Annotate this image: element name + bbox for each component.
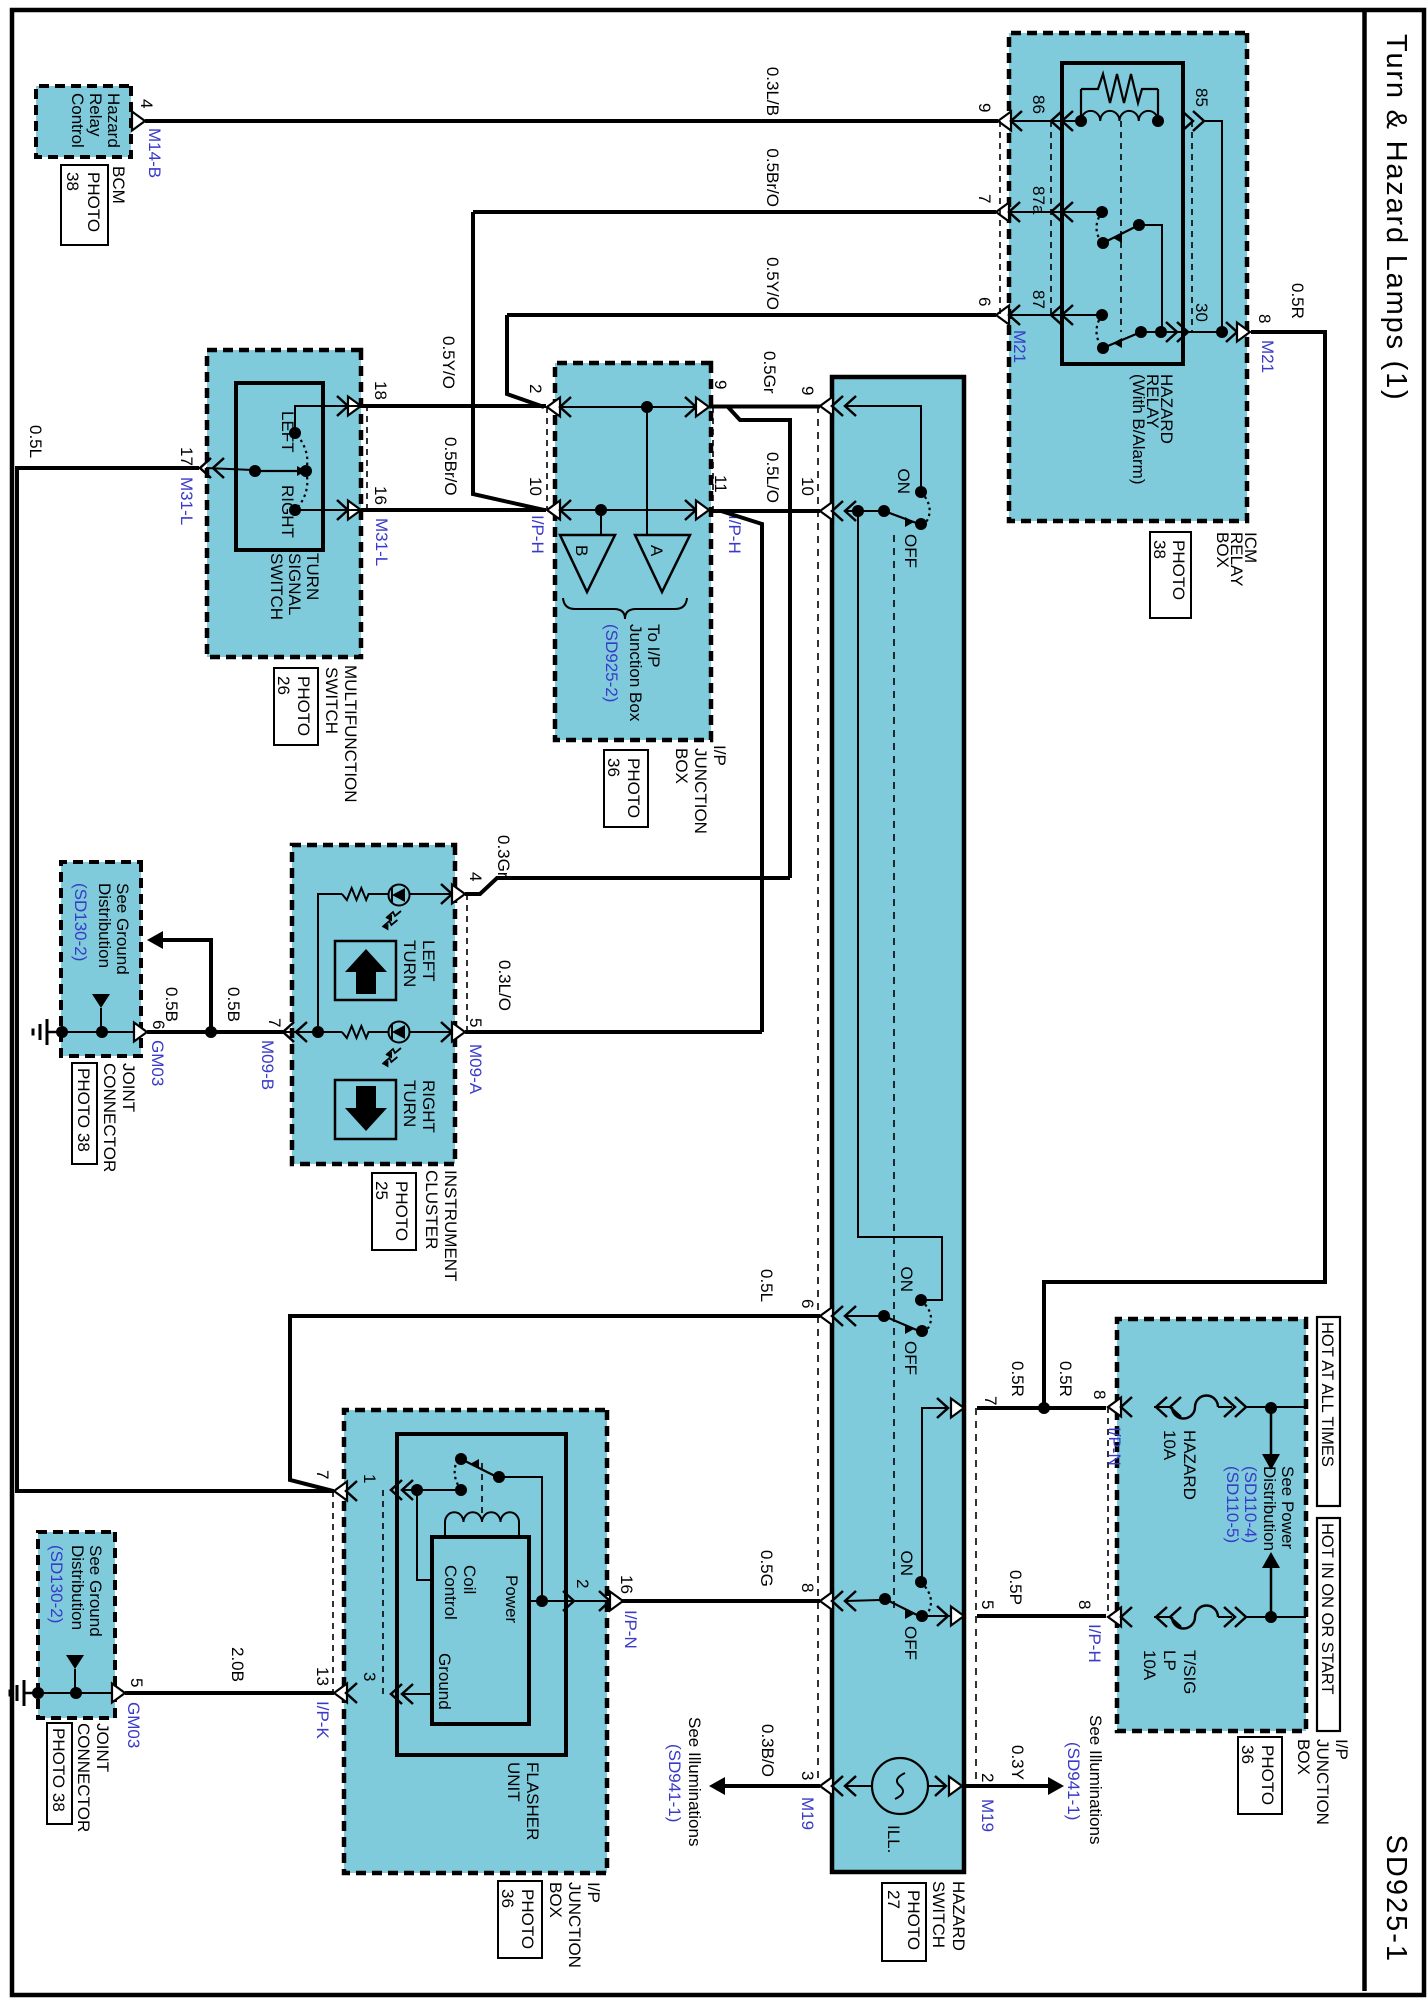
svg-text:38: 38 — [63, 172, 82, 191]
multifunction photo box — [274, 668, 318, 745]
pin 87a wire — [1009, 211, 1102, 213]
svg-text:CONNECTOR: CONNECTOR — [100, 1063, 119, 1172]
pole1 pivot dot — [878, 505, 890, 517]
svg-text:JUNCTION: JUNCTION — [565, 1882, 584, 1968]
jb pin 10 connector — [547, 501, 560, 520]
relay pin 6 connector — [996, 306, 1009, 325]
svg-text:10A: 10A — [1140, 1650, 1159, 1681]
svg-text:BOX: BOX — [546, 1882, 565, 1918]
wire 0.5B — [147, 1030, 211, 1034]
svg-text:M31-L: M31-L — [177, 477, 196, 525]
flasher pin 3 connector — [402, 1684, 413, 1704]
svg-text:LP: LP — [1160, 1650, 1179, 1671]
wire 0.5Y/O jog — [507, 315, 544, 407]
svg-text:Control: Control — [441, 1565, 460, 1620]
svg-text:2: 2 — [978, 1773, 997, 1782]
ILL lamp wire upper — [928, 1785, 946, 1787]
power wire — [529, 1600, 608, 1602]
svg-text:7: 7 — [265, 1018, 284, 1027]
see power arrow 2 — [1270, 1568, 1273, 1617]
svg-text:5: 5 — [978, 1600, 997, 1609]
svg-text:I/P-H: I/P-H — [528, 515, 547, 554]
wire 0.3B/O — [725, 1784, 820, 1788]
turn signal switch rect — [236, 383, 323, 550]
flasher pin 13 connector — [334, 1684, 347, 1703]
pole1 common dot — [852, 505, 864, 517]
see power arrow — [1270, 1408, 1273, 1455]
svg-text:Distribution: Distribution — [1260, 1466, 1279, 1551]
svg-text:85: 85 — [1192, 88, 1211, 107]
svg-text:8: 8 — [1075, 1600, 1094, 1609]
svg-text:BOX: BOX — [1294, 1739, 1313, 1775]
flasher unit rect — [397, 1434, 566, 1755]
right turn icon — [335, 1080, 396, 1139]
svg-text:0.5B: 0.5B — [162, 987, 181, 1022]
svg-text:25: 25 — [372, 1181, 391, 1200]
curly brace — [563, 598, 687, 619]
jb dash link left — [546, 407, 548, 510]
title separator line — [1362, 8, 1367, 1991]
fuse hazard 10A — [1172, 1396, 1218, 1419]
pin 86 chevrons — [1062, 111, 1073, 131]
svg-text:OFF: OFF — [901, 1626, 920, 1660]
svg-text:(SD130-2): (SD130-2) — [71, 883, 90, 961]
arm tip dot — [300, 465, 312, 477]
contact 87 dotted arc — [1097, 315, 1103, 348]
svg-text:7: 7 — [313, 1470, 332, 1479]
svg-text:3: 3 — [798, 1771, 817, 1780]
fuse tsig connector — [1108, 1608, 1121, 1627]
wire 0.5P — [977, 1614, 1106, 1618]
svg-text:ON: ON — [897, 1551, 916, 1577]
svg-text:TURN: TURN — [400, 1080, 419, 1127]
svg-text:PHOTO: PHOTO — [1258, 1745, 1277, 1805]
svg-text:0.5R: 0.5R — [1008, 1361, 1027, 1397]
svg-text:JOINT: JOINT — [119, 1063, 138, 1112]
svg-text:8: 8 — [1090, 1390, 1109, 1399]
svg-text:M09-B: M09-B — [258, 1040, 277, 1090]
svg-text:PHOTO: PHOTO — [904, 1890, 923, 1950]
ground arrow lower — [66, 1655, 84, 1669]
hz pole2 common wire — [845, 1315, 880, 1317]
svg-text:Control: Control — [68, 93, 87, 148]
svg-text:Distribution: Distribution — [95, 883, 114, 968]
wire 0.3L/B — [145, 119, 998, 123]
pin 18 connector — [337, 396, 348, 416]
svg-text:I/P: I/P — [710, 745, 729, 766]
hazard switch box — [832, 377, 964, 1872]
svg-text:ILL.: ILL. — [884, 1825, 903, 1853]
wire 0.3Y — [962, 1784, 1048, 1788]
arm 1 link — [1139, 225, 1162, 332]
wire 0.5Y/O relay segment — [507, 313, 996, 317]
svg-text:PHOTO: PHOTO — [518, 1889, 537, 1949]
flasher coil — [445, 1512, 519, 1522]
jb node B — [595, 504, 607, 516]
svg-text:LEFT: LEFT — [419, 940, 438, 982]
contact 87a dot — [1096, 206, 1108, 218]
pin 85 chevrons — [1182, 111, 1193, 131]
svg-text:RIGHT: RIGHT — [419, 1080, 438, 1133]
svg-text:0.5L: 0.5L — [26, 425, 45, 458]
wire 0.5L — [17, 468, 334, 1491]
svg-text:JUNCTION: JUNCTION — [691, 748, 710, 834]
svg-text:See Illuminations: See Illuminations — [1086, 1715, 1105, 1844]
hazard dash link right — [975, 1408, 977, 1786]
svg-text:I/P-H: I/P-H — [1085, 1624, 1104, 1663]
contact 87a pivot dot — [1097, 237, 1109, 249]
coil control wire — [417, 1492, 432, 1580]
svg-text:0.3Gr: 0.3Gr — [494, 835, 513, 878]
flasher inner rect — [432, 1537, 529, 1724]
svg-text:2: 2 — [573, 1579, 592, 1588]
junction cluster — [312, 1026, 324, 1038]
jb dash link right — [712, 407, 714, 510]
jb photo box — [604, 750, 648, 827]
svg-text:M19: M19 — [978, 1799, 997, 1832]
svg-text:Power: Power — [502, 1575, 521, 1624]
junction 85-30 — [1216, 326, 1228, 338]
wire 0.5L/O — [709, 509, 820, 513]
LED right turn — [389, 1022, 410, 1043]
triangle A — [635, 535, 690, 592]
fuse1 wire top — [1246, 1406, 1306, 1408]
flasher arm — [461, 1459, 497, 1477]
jb pin 11 connector — [685, 500, 696, 520]
jb node A — [641, 401, 653, 413]
svg-text:87a: 87a — [1029, 186, 1048, 215]
common wire — [206, 468, 253, 470]
fuse2 wire top — [1246, 1616, 1306, 1618]
fuse hazard chevrons — [1224, 1397, 1235, 1417]
svg-text:2.0B: 2.0B — [228, 1647, 247, 1682]
svg-text:I/P: I/P — [1332, 1739, 1351, 1760]
svg-text:CLUSTER: CLUSTER — [422, 1170, 441, 1249]
svg-text:8: 8 — [1255, 314, 1274, 323]
wire 0.3Gr to cluster — [465, 878, 790, 894]
hazard linkage dashed — [893, 535, 895, 1608]
svg-text:0.5G: 0.5G — [757, 1550, 776, 1587]
flasher linkage dashed — [481, 1463, 483, 1516]
svg-text:7: 7 — [975, 194, 994, 203]
svg-text:A: A — [647, 545, 666, 557]
hz pole1 on wire — [845, 406, 921, 488]
svg-text:HOT IN ON OR START: HOT IN ON OR START — [1318, 1523, 1336, 1694]
svg-text:5: 5 — [466, 1018, 485, 1027]
svg-text:SWITCH: SWITCH — [929, 1881, 948, 1948]
svg-text:6: 6 — [975, 297, 994, 306]
relay linkage dashed — [1120, 121, 1122, 332]
svg-text:UNIT: UNIT — [504, 1762, 523, 1802]
wire 0.3L/O to cluster — [465, 1030, 762, 1034]
pin 87a chevrons — [1062, 202, 1073, 222]
gm03 wire lower — [38, 1692, 122, 1694]
left branch wire — [318, 894, 342, 1032]
hazard pin 10 connector — [820, 502, 833, 521]
flasher pin1 wire — [402, 1489, 461, 1491]
switch arm — [255, 470, 304, 472]
OFF2 dot — [916, 1325, 928, 1337]
hazard pin 3 connector — [820, 1777, 833, 1796]
arc to RIGHT — [297, 471, 307, 508]
OFF1 dot — [915, 518, 927, 530]
resistor left — [342, 888, 371, 900]
hazard relay inner rect — [1062, 63, 1183, 364]
svg-text:16: 16 — [371, 486, 390, 505]
cluster common wire — [283, 1031, 342, 1033]
ground dot 1 — [56, 1026, 68, 1038]
hz pole3 common wire — [845, 1600, 880, 1601]
relay pin 7 connector — [996, 203, 1009, 222]
ground arrow upper — [92, 994, 110, 1008]
svg-text:0.5R: 0.5R — [1288, 283, 1307, 319]
power junction — [536, 1595, 548, 1607]
ground upper — [47, 1031, 61, 1034]
pin 86 wire — [1011, 120, 1081, 122]
svg-text:MULTIFUNCTION: MULTIFUNCTION — [341, 665, 360, 803]
svg-text:7: 7 — [981, 1396, 1000, 1405]
svg-text:4: 4 — [137, 99, 156, 108]
hazard dash link left — [817, 406, 819, 1786]
svg-text:(With B/Alarm): (With B/Alarm) — [1129, 374, 1148, 485]
IP junction box — [555, 363, 711, 740]
jb wire to triangle B — [600, 510, 602, 535]
flasher dash link 2 — [332, 1491, 334, 1693]
mf dash link — [366, 405, 368, 510]
svg-text:TURN: TURN — [400, 940, 419, 987]
fuse ip junction box — [1117, 1319, 1306, 1731]
flasher arm pivot — [493, 1471, 505, 1483]
hz pole1 common wire — [845, 510, 884, 512]
hot in on or start box — [1317, 1518, 1340, 1731]
RIGHT contact wire — [295, 509, 361, 511]
svg-text:PHOTO: PHOTO — [392, 1181, 411, 1241]
svg-text:9: 9 — [975, 103, 994, 112]
pole1 arm — [884, 511, 919, 524]
hazard pin 5 connector — [937, 1606, 948, 1626]
ON2 dot — [915, 1294, 927, 1306]
svg-text:See Illuminations: See Illuminations — [685, 1717, 704, 1846]
svg-text:Relay: Relay — [86, 93, 105, 137]
svg-text:Ground: Ground — [435, 1653, 454, 1710]
svg-text:M09-A: M09-A — [466, 1044, 485, 1095]
svg-text:Distribution: Distribution — [68, 1545, 87, 1630]
page background — [0, 0, 1428, 1428]
fuse1 junction — [1265, 1402, 1277, 1414]
flasher pin 16 connector — [599, 1591, 610, 1611]
svg-text:36: 36 — [604, 758, 623, 777]
relay resistor — [1157, 89, 1159, 120]
ICM relay box — [1009, 33, 1247, 521]
relay coil node A — [1152, 115, 1164, 127]
joint photo box upper — [72, 1063, 97, 1164]
LED left turn — [389, 885, 410, 906]
svg-text:See Ground: See Ground — [113, 883, 132, 975]
svg-text:M21: M21 — [1010, 330, 1029, 363]
instrument cluster box — [292, 845, 455, 1164]
LED2 wire — [409, 1031, 452, 1033]
svg-text:0.5P: 0.5P — [1006, 1570, 1025, 1605]
svg-text:9: 9 — [711, 380, 730, 389]
wire 0.5L hazard branch — [290, 1316, 820, 1491]
svg-text:0.5Y/O: 0.5Y/O — [439, 336, 458, 389]
LED1 wire — [409, 893, 452, 895]
svg-text:2: 2 — [526, 384, 545, 393]
hot at all times box — [1317, 1317, 1340, 1506]
svg-text:GM03: GM03 — [148, 1040, 167, 1086]
wire gm03 to cluster — [211, 1030, 283, 1034]
wire 0.3L/O branch — [721, 511, 762, 1032]
fuse tsig chevrons — [1224, 1607, 1235, 1627]
wire 85 to 30 — [1204, 121, 1222, 332]
svg-text:0.3Y: 0.3Y — [1008, 1745, 1027, 1780]
svg-text:10: 10 — [526, 477, 545, 496]
relay arm 2 — [1103, 332, 1141, 348]
wire 0.5Gr — [709, 405, 820, 409]
hazard pin 6 connector — [820, 1307, 833, 1326]
svg-text:SWITCH: SWITCH — [322, 667, 341, 734]
svg-text:3: 3 — [360, 1672, 379, 1681]
cluster pin 4 connector — [441, 884, 452, 904]
svg-text:0.5Gr: 0.5Gr — [760, 351, 779, 394]
svg-text:(SD925-2): (SD925-2) — [602, 624, 621, 702]
jb pin 9 connector — [685, 397, 696, 417]
svg-text:HAZARD: HAZARD — [1180, 1430, 1199, 1500]
arm 2 node — [1135, 326, 1147, 338]
svg-text:HAZARD: HAZARD — [949, 1881, 968, 1951]
junction 0.5B — [205, 1026, 217, 1038]
ICM photo box — [1150, 532, 1191, 618]
BCM Hazard Relay Control box — [36, 86, 131, 157]
svg-text:6: 6 — [798, 1299, 817, 1308]
joint photo box lower — [47, 1723, 72, 1824]
svg-text:0.5Br/O: 0.5Br/O — [441, 437, 460, 496]
svg-text:M31-L: M31-L — [372, 518, 391, 566]
pole3 dotted arc — [921, 1582, 931, 1616]
svg-text:SWITCH: SWITCH — [267, 553, 286, 620]
wire 2.0B — [125, 1691, 334, 1695]
svg-text:0.3B/O: 0.3B/O — [758, 1724, 777, 1777]
svg-text:T/SIG: T/SIG — [1180, 1650, 1199, 1694]
relay coil node B — [1075, 115, 1087, 127]
svg-text:Junction Box: Junction Box — [626, 624, 645, 722]
svg-text:LEFT: LEFT — [278, 411, 297, 453]
relay coil — [1081, 111, 1158, 121]
relay pin 30 box connector — [1226, 322, 1237, 342]
connector dash line 85-30 — [1191, 121, 1193, 332]
gm03 connector lower — [112, 1684, 125, 1703]
svg-text:To I/P: To I/P — [644, 624, 663, 667]
fuse hazard wire — [1154, 1406, 1172, 1408]
hazard pin 8 connector — [820, 1592, 833, 1611]
svg-text:ON: ON — [897, 1267, 916, 1293]
svg-text:PHOTO: PHOTO — [624, 758, 643, 818]
svg-text:38: 38 — [1150, 540, 1169, 559]
cluster pin 5 connector — [441, 1022, 452, 1042]
svg-text:BOX: BOX — [672, 748, 691, 784]
triangle B — [560, 535, 615, 592]
svg-text:GM03: GM03 — [124, 1702, 143, 1748]
pole3 arm — [885, 1599, 919, 1616]
svg-text:I/P-K: I/P-K — [313, 1701, 332, 1739]
pole2 pivot dot — [878, 1310, 890, 1322]
wire 0.5Y/O mf-jb — [361, 404, 546, 408]
svg-text:5: 5 — [127, 1678, 146, 1687]
pin 16 connector — [337, 500, 348, 520]
svg-text:(SD110-5): (SD110-5) — [1223, 1466, 1242, 1543]
ground lower — [24, 1692, 38, 1695]
svg-text:OFF: OFF — [901, 1341, 920, 1375]
svg-text:9: 9 — [798, 386, 817, 395]
RIGHT contact dot — [289, 504, 301, 516]
svg-text:(SD110-4): (SD110-4) — [1241, 1466, 1260, 1543]
0.3B/O arrow — [709, 1777, 725, 1795]
wire 0.5Br/O relay segment — [473, 210, 996, 214]
connector dash line M21 — [999, 121, 1001, 315]
contact 87a dotted arc — [1097, 212, 1103, 243]
svg-text:M14-B: M14-B — [145, 128, 164, 178]
svg-text:16: 16 — [617, 1575, 636, 1594]
resistor right — [342, 1026, 371, 1038]
ground dot 2 — [96, 1026, 108, 1038]
pole3 pivot dot — [879, 1593, 891, 1605]
svg-text:Coil: Coil — [460, 1565, 479, 1594]
junction 87a-30 — [1155, 326, 1167, 338]
svg-text:OFF: OFF — [901, 534, 920, 568]
fuse tsig 10A — [1172, 1606, 1218, 1629]
ILL lamp wire lower — [845, 1785, 872, 1787]
svg-text:11: 11 — [711, 475, 730, 493]
svg-text:JUNCTION: JUNCTION — [1313, 1739, 1332, 1825]
svg-text:0.5Y/O: 0.5Y/O — [763, 257, 782, 310]
svg-text:ON: ON — [894, 469, 913, 495]
flasher dash link 1 — [382, 1490, 384, 1694]
OFF3 dot — [916, 1610, 928, 1622]
svg-text:See Ground: See Ground — [86, 1545, 105, 1637]
flasher top dot — [455, 1453, 467, 1465]
svg-text:I/P-H: I/P-H — [725, 515, 744, 554]
svg-text:87: 87 — [1029, 290, 1048, 309]
cluster photo box — [372, 1173, 416, 1250]
flasher pin 2 connector — [563, 1591, 574, 1611]
ON3 wire to pin7 — [922, 1408, 946, 1582]
svg-text:27: 27 — [884, 1890, 903, 1909]
fuse hazard connector — [1108, 1398, 1121, 1417]
cluster pin 7 connector — [296, 1022, 307, 1042]
pin 87 wire — [1009, 314, 1102, 316]
svg-text:RIGHT: RIGHT — [278, 485, 297, 538]
svg-text:36: 36 — [498, 1889, 517, 1908]
svg-text:I/P: I/P — [584, 1882, 603, 1903]
fuse2 junction — [1265, 1611, 1277, 1623]
fuse dash link — [1107, 1407, 1109, 1617]
svg-text:PHOTO: PHOTO — [294, 676, 313, 736]
wire 0.5Br/O mf-jb — [361, 508, 546, 512]
gm03 connector upper — [134, 1023, 147, 1042]
pin 30 chevrons — [1166, 322, 1177, 342]
contact 87 dot — [1096, 309, 1108, 321]
wire 0.5G — [622, 1599, 820, 1603]
svg-text:10A: 10A — [1160, 1430, 1179, 1461]
LEFT contact wire — [295, 406, 361, 433]
svg-text:See Power: See Power — [1278, 1466, 1297, 1549]
svg-text:BOX: BOX — [1213, 532, 1232, 568]
svg-text:26: 26 — [274, 676, 293, 695]
hazard pin 2 connector — [935, 1776, 946, 1796]
joint connector box upper — [61, 862, 141, 1056]
junction 0.5R — [1038, 1402, 1050, 1414]
left turn icon — [335, 941, 396, 1000]
